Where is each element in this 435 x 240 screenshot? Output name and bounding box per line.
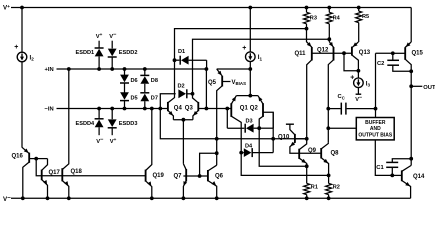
svg-text:Q2: Q2 xyxy=(250,105,259,111)
wire top rail right corner xyxy=(410,8,412,43)
transistor Q5 emitter arrow xyxy=(217,71,221,76)
transistor Q9 bar xyxy=(298,149,300,159)
transistor Q7 collector xyxy=(183,164,186,170)
node rail Q17 xyxy=(46,196,50,200)
transistor Q12 bar xyxy=(333,47,335,61)
transistor Q13 emitter top xyxy=(352,42,358,47)
transistor Q7 emitter xyxy=(183,181,186,199)
svg-text:Q4: Q4 xyxy=(174,106,183,112)
transistor Q5 bar xyxy=(221,76,223,87)
svg-text:Q8: Q8 xyxy=(331,151,340,157)
svg-text:AND: AND xyxy=(370,126,381,132)
current source I2 xyxy=(17,52,27,62)
transistor Q3 bar xyxy=(197,102,199,111)
node Q6 loop collector junction xyxy=(215,151,219,155)
svg-text:ESDD1: ESDD1 xyxy=(76,50,95,56)
resistor R5 xyxy=(358,8,360,12)
transistor Q18 collector xyxy=(62,69,69,170)
node R4 line B junction xyxy=(327,37,331,41)
transistor Q8 bar xyxy=(320,148,322,159)
node I3 top junction xyxy=(357,69,361,73)
svg-text:Q12: Q12 xyxy=(317,47,329,53)
transistor Q19 emitter xyxy=(146,181,152,198)
wire I1 to pair emitters xyxy=(249,69,251,96)
wire V+ top rail xyxy=(11,7,411,9)
diode ESDD2 xyxy=(111,41,113,49)
transistor Q11 collector xyxy=(307,60,312,139)
diode D5 xyxy=(124,83,126,93)
transistor Q14 collector xyxy=(402,165,411,171)
wire Q16 base to Q17 collector xyxy=(36,158,47,160)
node Q6 base junction xyxy=(198,174,202,178)
wire I1 to +IN level xyxy=(249,61,251,69)
node -IN Q19 tap xyxy=(150,107,154,111)
svg-text:R2: R2 xyxy=(333,185,340,191)
wire D3 line right end xyxy=(259,127,273,129)
svg-text:V−: V− xyxy=(355,95,363,103)
svg-text:R3: R3 xyxy=(310,15,317,21)
node R2 top junction xyxy=(327,174,331,178)
diode ESDD3 xyxy=(111,109,113,120)
transistor Q11 base xyxy=(312,52,334,54)
svg-text:V+: V+ xyxy=(3,5,10,12)
transistor Q15 emitter xyxy=(405,42,411,47)
diode D4 xyxy=(244,148,252,157)
node +IN ESDD2 xyxy=(110,67,114,71)
node Q1 base junction xyxy=(225,107,229,111)
node Q12 collector Cc junction xyxy=(326,107,330,111)
node rail Q6 xyxy=(215,196,219,200)
diode D3 xyxy=(227,127,244,129)
transistor Q11 bar xyxy=(311,47,313,61)
wire Q6 diode loop xyxy=(200,153,217,176)
transistor Q3 emitter xyxy=(193,110,198,119)
transistor Q10 collector xyxy=(290,124,295,135)
wire line A to R3 xyxy=(175,29,307,61)
node Q3 base -IN junction xyxy=(205,107,209,111)
transistor Q16 bar xyxy=(28,153,30,163)
node OUT C2 junction xyxy=(409,69,413,73)
diode ESDD1 xyxy=(98,41,100,48)
node -IN D5 xyxy=(123,107,127,111)
node pair tail xyxy=(182,118,186,122)
current source I3 xyxy=(354,78,364,88)
svg-text:Q14: Q14 xyxy=(413,174,425,180)
transistor Q6 collector xyxy=(208,165,217,171)
transistor Q18 emitter xyxy=(62,181,69,199)
node +IN D6 xyxy=(123,67,127,71)
svg-text:Q6: Q6 xyxy=(215,174,224,180)
current source I1 xyxy=(246,52,256,62)
wire Q1 collector to R2 node xyxy=(241,153,328,176)
wire C1 bottom lead xyxy=(391,167,393,175)
transistor Q5 base xyxy=(222,81,230,83)
node +IN Q18 junction xyxy=(67,67,71,71)
node rail Q19 xyxy=(150,196,154,200)
wire Q1 base down to D3 xyxy=(226,109,228,129)
node Cc buffer junction xyxy=(374,107,378,111)
svg-text:D4: D4 xyxy=(245,143,253,149)
svg-text:OUTPUT BIAS: OUTPUT BIAS xyxy=(358,132,393,138)
diode D7 xyxy=(140,94,149,102)
svg-text:V+: V+ xyxy=(96,32,103,40)
node +IN D8 xyxy=(143,67,147,71)
node rail R1 xyxy=(305,196,309,200)
svg-text:OUT: OUT xyxy=(423,85,435,91)
node Q14 base junction xyxy=(390,174,394,178)
node line Q5 collector junction xyxy=(215,137,219,141)
node OUT tap xyxy=(409,84,413,88)
wire Q3 base vertical xyxy=(205,69,207,109)
wire base row Q17 to Q18 xyxy=(42,175,63,177)
node C1 top junction xyxy=(409,157,413,161)
svg-text:R5: R5 xyxy=(362,14,369,20)
node line D4 junction xyxy=(271,137,275,141)
transistor Q6 bar xyxy=(207,170,209,181)
svg-text:ESDD2: ESDD2 xyxy=(119,50,138,56)
svg-text:ESDD3: ESDD3 xyxy=(119,121,138,127)
node D3 Q2 collector junction xyxy=(257,126,261,130)
transistor Q10 emitter xyxy=(290,142,299,153)
node C2 top junction xyxy=(391,51,395,55)
svg-text:C1: C1 xyxy=(376,165,384,171)
svg-text:VBIAS: VBIAS xyxy=(232,80,247,86)
svg-text:D3: D3 xyxy=(246,118,253,124)
wire Q12 Q13 base tie xyxy=(334,52,352,54)
svg-text:D2: D2 xyxy=(178,84,185,90)
transistor Q2 emitter xyxy=(258,96,263,104)
node D4 Q1 collector junction xyxy=(239,151,243,155)
svg-text:Q11: Q11 xyxy=(295,51,307,57)
svg-text:−IN: −IN xyxy=(45,107,54,113)
wire pair common emitter xyxy=(173,119,193,121)
svg-text:D5: D5 xyxy=(131,96,138,102)
wire Q4 collector node xyxy=(173,58,177,62)
power tap Q10 collector xyxy=(286,123,294,125)
svg-text:D1: D1 xyxy=(178,49,185,55)
wire base row Q18 to Q19 xyxy=(62,175,145,177)
node top rail I2 junction xyxy=(20,6,24,10)
diode D1 xyxy=(175,59,180,61)
transistor Q16 collector xyxy=(23,162,29,198)
transistor Q1 collector xyxy=(231,116,241,152)
transistor Q9 collector xyxy=(299,139,307,150)
svg-text:Q15: Q15 xyxy=(412,51,424,57)
transistor Q15 base xyxy=(393,52,405,54)
transistor Q4 collector xyxy=(168,60,175,103)
transistor Q1 emitter xyxy=(231,96,236,104)
transistor Q5 collector xyxy=(217,86,223,165)
wire pair common emitter top xyxy=(236,95,258,97)
wire I2 to Q16 emitter xyxy=(21,62,23,148)
svg-text:R4: R4 xyxy=(333,15,341,21)
svg-text:V−: V− xyxy=(96,137,104,145)
node -IN D7 xyxy=(143,107,147,111)
transistor Q7 base row xyxy=(183,175,199,177)
node +IN ESDD1 xyxy=(97,67,101,71)
transistor Q14 emitter xyxy=(402,181,411,199)
svg-text:Q5: Q5 xyxy=(208,80,217,86)
transistor Q13 bar xyxy=(351,47,353,56)
node I1 +IN junction xyxy=(248,67,252,71)
svg-text:Q16: Q16 xyxy=(12,154,24,160)
wire Cc left lead xyxy=(328,108,340,110)
node top rail R3 xyxy=(305,6,309,10)
wire I2 upper lead xyxy=(21,8,23,53)
transistor Q3 collector xyxy=(193,94,199,103)
transistor Q19 bar xyxy=(145,170,147,182)
node pair top xyxy=(248,94,252,98)
wire C2 bottom lead xyxy=(393,65,411,71)
svg-text:V−: V− xyxy=(3,194,11,203)
transistor Q1 bar xyxy=(230,103,232,117)
node -IN ESDD4 xyxy=(97,107,101,111)
svg-text:Q13: Q13 xyxy=(359,50,371,56)
svg-text:I1: I1 xyxy=(258,54,263,61)
node rail R2 xyxy=(327,196,331,200)
svg-text:Q18: Q18 xyxy=(71,169,83,175)
transistor Q8 emitter xyxy=(321,158,328,176)
svg-text:+: + xyxy=(242,45,246,52)
wire C1 top lead xyxy=(392,159,411,163)
transistor Q11 emitter xyxy=(307,29,312,48)
wire D1 to +IN corner xyxy=(206,60,208,69)
transistor Q2 base xyxy=(263,112,273,128)
svg-text:CC: CC xyxy=(338,94,345,100)
svg-text:Q3: Q3 xyxy=(185,106,194,112)
transistor Q13 collector xyxy=(352,55,359,71)
wire I3 bottom lead xyxy=(357,87,359,94)
wire D4 right corner up xyxy=(272,112,274,152)
transistor Q3 base xyxy=(198,108,206,110)
svg-text:D8: D8 xyxy=(151,78,158,84)
wire buffer left lead xyxy=(328,127,356,129)
transistor Q17 collector xyxy=(42,159,48,171)
resistor R4 xyxy=(328,8,330,13)
wire Q2 collector to R1 node xyxy=(259,128,307,166)
transistor Q16 emitter xyxy=(22,147,29,153)
diode D2 xyxy=(160,94,175,109)
svg-text:ESDD4: ESDD4 xyxy=(76,121,96,127)
node top rail I1 xyxy=(248,6,252,10)
transistor Q7 bar xyxy=(185,169,187,181)
wire +IN line xyxy=(57,68,207,70)
wire buffer bottom lead xyxy=(375,140,392,176)
transistor Q10 base xyxy=(295,138,307,140)
svg-text:I3: I3 xyxy=(366,80,371,87)
wire tail down to Q7 xyxy=(182,120,184,164)
resistor R1 xyxy=(306,166,308,183)
wire D2 node to Q10 base line xyxy=(160,109,306,139)
transistor Q1 base xyxy=(227,108,231,110)
transistor Q17 bar xyxy=(41,170,43,181)
transistor Q12 collector xyxy=(328,60,333,143)
transistor Q9 emitter xyxy=(299,158,307,166)
wire +IN to Q5 emitter xyxy=(217,69,223,76)
wire I1 upper lead xyxy=(249,8,251,53)
wire base tie down to I3 node xyxy=(344,53,358,71)
svg-text:D7: D7 xyxy=(151,96,158,102)
node rail Q7 xyxy=(182,196,186,200)
transistor Q18 bar xyxy=(61,168,63,181)
transistor Q6 emitter xyxy=(208,181,217,199)
wire Cc right lead xyxy=(347,108,376,110)
transistor Q14 bar xyxy=(401,170,403,181)
node Q16 base junction xyxy=(34,157,38,161)
node line Q11 collector junction xyxy=(305,137,309,141)
wire V- bottom rail xyxy=(11,197,411,199)
node -IN D2 tap xyxy=(158,107,162,111)
transistor Q19 collector xyxy=(146,109,152,171)
transistor Q2 collector xyxy=(259,116,263,128)
svg-text:+: + xyxy=(14,44,18,51)
capacitor C1 xyxy=(386,161,398,163)
wire I3 top lead xyxy=(357,71,359,79)
diode D6 xyxy=(124,69,126,75)
node base tie junction xyxy=(342,51,346,55)
wire C2 top lead xyxy=(392,53,394,60)
node rail Q16 xyxy=(21,196,25,200)
node top rail R5 xyxy=(357,6,361,10)
svg-text:Q10: Q10 xyxy=(278,135,290,141)
diode ESDD4 xyxy=(98,109,100,120)
capacitor C2 xyxy=(387,59,399,61)
svg-text:R1: R1 xyxy=(311,185,318,191)
node +IN Q3 base junction xyxy=(205,67,209,71)
svg-text:Q7: Q7 xyxy=(174,174,183,180)
transistor Q17 emitter xyxy=(42,180,48,199)
node R3 line A junction xyxy=(305,27,309,31)
wire Q14 base xyxy=(392,174,402,176)
node Q8 collector buffer junction xyxy=(326,126,330,130)
svg-text:Q19: Q19 xyxy=(153,173,165,179)
svg-text:I2: I2 xyxy=(30,55,35,62)
svg-text:C2: C2 xyxy=(377,61,384,67)
transistor Q4 bar xyxy=(167,102,169,111)
transistor Q10 bar xyxy=(294,134,296,143)
node D2 Q3 collector junction xyxy=(191,92,195,96)
wire Q16 base down to base row xyxy=(36,159,42,176)
diode D8 xyxy=(144,69,146,75)
node top rail R4 xyxy=(327,6,331,10)
capacitor Cc xyxy=(340,103,342,115)
wire OUT lead xyxy=(411,85,422,87)
transistor Q16 base xyxy=(29,158,36,160)
svg-text:+IN: +IN xyxy=(45,67,54,73)
svg-text:+: + xyxy=(350,75,354,82)
wire Q9 Q8 base tie xyxy=(299,152,321,154)
wire Q15 base net vertical xyxy=(375,53,377,117)
transistor Q2 bar xyxy=(262,103,264,117)
transistor Q4 emitter xyxy=(168,110,174,119)
wire output vertical xyxy=(410,71,412,165)
wire Q15 base to net xyxy=(376,52,393,54)
wire -IN extension to Q1 base xyxy=(206,108,227,110)
power tap V- I3 xyxy=(356,93,362,95)
resistor R2 xyxy=(328,175,330,183)
wire -IN line xyxy=(57,108,168,110)
svg-text:D6: D6 xyxy=(131,78,138,84)
svg-text:Q1: Q1 xyxy=(240,105,249,111)
wire line B to R4 xyxy=(193,39,330,94)
svg-text:V+: V+ xyxy=(110,137,117,145)
wire Q6 base xyxy=(200,175,208,177)
node rail Q18 xyxy=(67,196,71,200)
transistor Q8 collector xyxy=(321,143,328,149)
wire Q5 emitter line to I1 xyxy=(217,68,251,70)
transistor Q12 emitter xyxy=(329,39,333,47)
svg-text:V−: V− xyxy=(109,32,117,40)
node -IN ESDD3 xyxy=(110,107,114,111)
transistor Q15 collector xyxy=(405,59,411,71)
block buffer and output bias xyxy=(356,118,394,140)
node R1 top junction xyxy=(305,164,309,168)
transistor Q15 bar xyxy=(404,47,406,60)
resistor R3 xyxy=(306,8,308,13)
